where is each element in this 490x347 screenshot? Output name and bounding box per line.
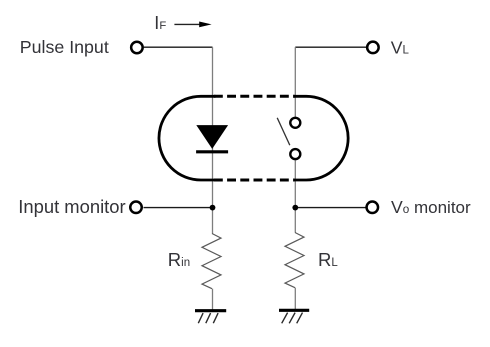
svg-text:Input monitor: Input monitor [18,196,125,217]
node: junction dot right rail / Vo monitor [292,205,298,211]
wire: right rail between switch and resistor RL [294,160,296,233]
terminal: VL [367,42,379,54]
resistor Rin: zigzag [202,234,221,289]
LED D1: cathode bar [196,150,228,153]
wire: pulse input terminal to left rail [144,46,213,48]
wire: left rail vertical [212,47,214,233]
ground: under RL [279,310,309,323]
svg-text:Pulse Input: Pulse Input [20,37,109,57]
wire: right rail to Vo monitor terminal [295,207,366,209]
switch S1: lever [277,118,290,145]
terminal: Vo monitor [367,202,379,214]
resistor RL: zigzag [285,233,304,288]
terminal: Pulse Input [131,42,143,54]
terminal: Input monitor [130,202,142,214]
switch S1: top contact circle [290,118,300,128]
optocoupler package U1: dashed bottom edge [214,179,295,182]
optocoupler package U1: stadium outline solid parts [159,96,348,180]
switch S1: bottom contact circle [290,149,300,159]
current arrow IF [174,22,211,28]
LED D1: triangle [196,125,228,149]
ground: under Rin [195,311,226,324]
wire: right rail below resistor RL [294,288,296,310]
wire: right rail top vertical [294,47,296,117]
wire: VL terminal to right rail [295,46,366,48]
optocoupler package U1: dashed top edge [214,95,295,98]
wire: input monitor terminal to left rail [144,207,213,209]
node: junction dot left rail / input monitor [210,205,216,211]
wire: left rail below resistor Rin [212,289,214,310]
